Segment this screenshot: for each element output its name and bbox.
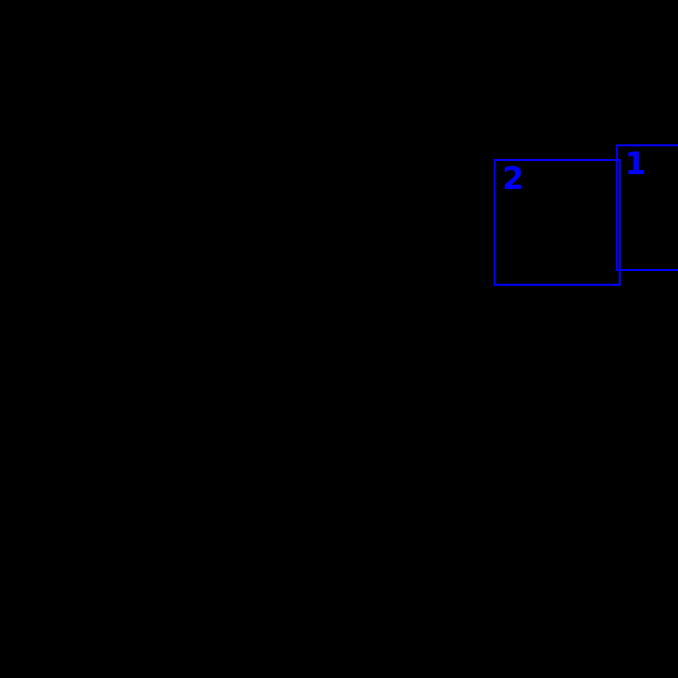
label 1 xyxy=(628,152,644,175)
label 2 xyxy=(505,166,521,189)
square 2 xyxy=(495,160,620,285)
square 1 xyxy=(617,145,678,270)
